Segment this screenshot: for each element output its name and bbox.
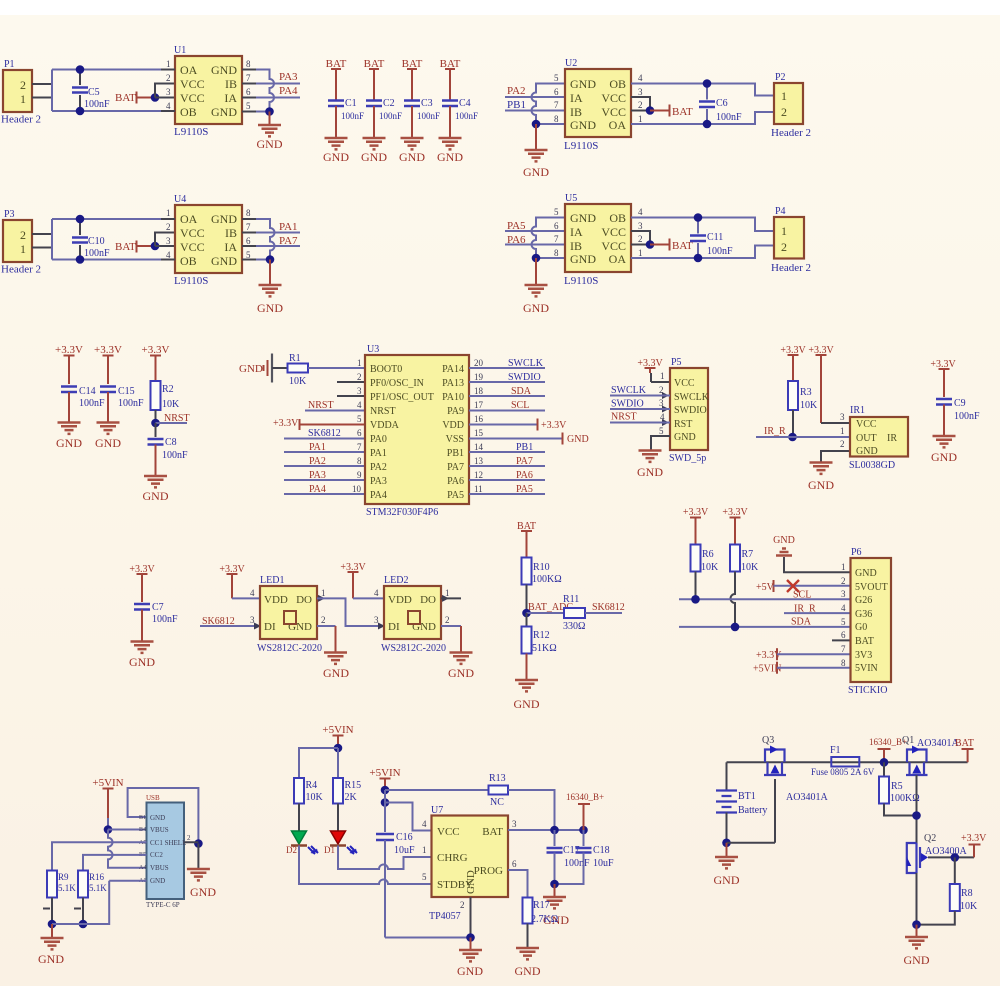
svg-text:C9: C9 xyxy=(954,398,966,409)
capacitor C9 xyxy=(936,398,980,436)
power port BAT (R10) xyxy=(517,521,536,558)
svg-text:16340_B+: 16340_B+ xyxy=(566,792,604,802)
svg-text:STICKIO: STICKIO xyxy=(848,685,887,696)
svg-text:17: 17 xyxy=(474,400,484,410)
svg-text:PROG: PROG xyxy=(474,865,503,877)
svg-text:BAT: BAT xyxy=(672,106,693,118)
no-ERC cross P6 pin2 xyxy=(787,580,799,592)
svg-text:2: 2 xyxy=(20,78,26,92)
arrow LED1 DI xyxy=(254,623,261,630)
svg-text:C5: C5 xyxy=(88,87,100,98)
svg-text:WS2812C-2020: WS2812C-2020 xyxy=(257,643,322,654)
node C6 top xyxy=(703,79,712,88)
ground LED2 xyxy=(450,653,473,664)
svg-text:CC2: CC2 xyxy=(150,851,163,859)
node BAT C17 xyxy=(550,826,559,835)
svg-text:C2: C2 xyxy=(383,98,395,109)
svg-text:12: 12 xyxy=(474,470,483,480)
svg-text:Fuse 0805 2A 6V: Fuse 0805 2A 6V xyxy=(811,767,875,777)
capacitor C7 xyxy=(134,602,178,641)
svg-text:Battery: Battery xyxy=(738,805,767,816)
svg-text:IB: IB xyxy=(570,239,582,253)
svg-text:6: 6 xyxy=(357,428,362,438)
svg-text:G26: G26 xyxy=(855,595,872,606)
svg-text:100nF: 100nF xyxy=(118,398,144,409)
node R16 bottom xyxy=(79,920,88,929)
svg-text:GND: GND xyxy=(143,489,169,503)
resistor R12 xyxy=(522,613,557,680)
svg-text:L9110S: L9110S xyxy=(564,275,598,287)
svg-text:R4: R4 xyxy=(306,780,318,791)
wire shell pin xyxy=(184,842,198,869)
wire U7 BAT net xyxy=(508,829,584,831)
wire SCL net P6 xyxy=(679,598,851,600)
wire PA3 net xyxy=(256,83,300,85)
node VCC tap xyxy=(381,798,390,807)
ground Q2 xyxy=(905,937,928,948)
svg-text:+3.3V: +3.3V xyxy=(55,344,83,356)
svg-text:+3.3V: +3.3V xyxy=(683,507,709,518)
svg-text:4: 4 xyxy=(638,207,643,217)
svg-text:2: 2 xyxy=(638,234,643,244)
svg-text:R15: R15 xyxy=(345,780,362,791)
svg-text:BAT: BAT xyxy=(482,826,503,838)
U4 pin numbers left xyxy=(166,208,171,260)
svg-text:1: 1 xyxy=(841,562,846,572)
node R13 tap xyxy=(381,786,390,795)
svg-text:2: 2 xyxy=(357,372,362,382)
svg-text:8: 8 xyxy=(554,248,559,258)
svg-text:GND: GND xyxy=(570,252,596,266)
ground P5 xyxy=(639,451,662,462)
wire R11 to SK6812 xyxy=(585,612,622,614)
wire SWDIO net xyxy=(469,381,545,383)
connector P6 STICKIO xyxy=(848,547,891,696)
ground C17 C18 xyxy=(543,897,566,908)
wire NRST stub xyxy=(156,422,188,424)
node BAT U1 xyxy=(151,93,160,102)
node R9 bottom xyxy=(48,920,57,929)
node NRST xyxy=(151,419,160,428)
capacitor C18 xyxy=(555,830,615,884)
svg-text:R2: R2 xyxy=(162,384,174,395)
svg-text:L9110S: L9110S xyxy=(174,275,208,287)
svg-text:VCC: VCC xyxy=(437,826,460,838)
receiver IR1 SL0038GD xyxy=(849,405,908,471)
wire Q1 gate down xyxy=(916,775,918,843)
wire Q2 source down xyxy=(916,873,918,925)
U3 pin numbers left xyxy=(352,358,362,494)
node BAT U4 xyxy=(151,242,160,251)
usb connector USB TYPE-C 6P xyxy=(146,794,186,909)
wire PA7 net xyxy=(256,245,300,247)
power port 16340_B+ (U7) xyxy=(566,792,604,830)
svg-text:P6: P6 xyxy=(851,547,862,558)
svg-text:2: 2 xyxy=(781,240,787,254)
wire CC2 to R16 xyxy=(83,855,147,871)
wire battery minus to Q3 gate xyxy=(727,779,776,843)
resistor R9 xyxy=(47,871,76,925)
wire SWDIO to P5 xyxy=(610,408,670,410)
connector P4 xyxy=(771,206,811,274)
svg-text:IR_R: IR_R xyxy=(764,426,786,437)
svg-text:SCL: SCL xyxy=(511,400,529,411)
svg-text:GND: GND xyxy=(637,465,663,479)
no-fit mark R16 xyxy=(74,908,81,910)
svg-text:2.7KΩ: 2.7KΩ xyxy=(531,914,558,925)
capacitor C14 xyxy=(61,386,105,423)
svg-text:+3.3V: +3.3V xyxy=(756,650,782,661)
IR1 pin numbers xyxy=(840,412,845,449)
U4 pin stubs right xyxy=(242,219,256,260)
svg-text:C11: C11 xyxy=(707,232,723,243)
svg-text:6: 6 xyxy=(841,630,846,640)
wire P3 pin1 stub xyxy=(32,247,52,249)
svg-text:CC1 SHELL: CC1 SHELL xyxy=(150,839,186,847)
svg-text:6: 6 xyxy=(554,221,559,231)
node P3 bottom xyxy=(76,255,85,264)
svg-text:U7: U7 xyxy=(431,805,443,816)
svg-text:8: 8 xyxy=(841,658,846,668)
svg-text:R9: R9 xyxy=(58,872,69,882)
wire IR1 GND drop xyxy=(821,451,850,462)
ground C9 xyxy=(933,436,956,447)
node USB VBUS xyxy=(104,825,113,834)
LED1 pin numbers xyxy=(250,588,326,625)
svg-text:SDA: SDA xyxy=(791,617,812,628)
svg-text:3: 3 xyxy=(250,615,255,625)
svg-text:6: 6 xyxy=(246,87,251,97)
wire U2 pin4 OB to P2 pin1 xyxy=(631,84,774,96)
svg-text:5: 5 xyxy=(841,617,846,627)
wire LED2 GND drop xyxy=(441,626,461,652)
svg-text:L9110S: L9110S xyxy=(174,126,208,138)
svg-text:100nF: 100nF xyxy=(716,112,742,123)
svg-text:G36: G36 xyxy=(855,609,872,620)
capacitor C11 xyxy=(690,218,733,259)
svg-text:100nF: 100nF xyxy=(417,111,440,121)
svg-text:100nF: 100nF xyxy=(79,398,105,409)
svg-text:IR1: IR1 xyxy=(850,405,865,416)
svg-text:OA: OA xyxy=(180,63,198,77)
svg-text:GND: GND xyxy=(457,964,483,978)
svg-text:R3: R3 xyxy=(800,387,812,398)
ground C4 xyxy=(439,138,462,149)
svg-text:100nF: 100nF xyxy=(707,246,733,257)
svg-text:8: 8 xyxy=(554,114,559,124)
svg-text:7: 7 xyxy=(246,222,251,232)
svg-text:SWDIO: SWDIO xyxy=(611,399,644,410)
svg-text:C16: C16 xyxy=(396,832,413,843)
svg-text:GND: GND xyxy=(190,885,216,899)
node 16340 tap xyxy=(880,758,889,767)
svg-text:R6: R6 xyxy=(702,549,714,560)
power port +3.3V (U3 VDDA) xyxy=(273,418,365,430)
svg-text:G0: G0 xyxy=(855,622,867,633)
svg-text:1: 1 xyxy=(660,371,665,381)
svg-text:GND: GND xyxy=(361,150,387,164)
svg-text:PA6: PA6 xyxy=(516,470,533,481)
svg-text:VCC: VCC xyxy=(180,91,205,105)
U1 pin stubs left xyxy=(161,70,175,112)
svg-text:GND: GND xyxy=(288,621,312,633)
svg-text:PA4: PA4 xyxy=(279,85,298,97)
svg-text:NRST: NRST xyxy=(611,412,637,423)
wire U3 pin2 nc stub xyxy=(337,381,365,383)
led D2 green xyxy=(286,831,318,855)
svg-text:A4: A4 xyxy=(139,865,146,871)
svg-text:2: 2 xyxy=(166,222,171,232)
wire SK6812 to LED1 DI xyxy=(200,625,260,627)
svg-text:VCC: VCC xyxy=(180,240,205,254)
node U5 GND xyxy=(532,254,541,263)
capacitor C17 xyxy=(547,830,591,884)
svg-text:7: 7 xyxy=(246,73,251,83)
wire NRST to U3 pin4 xyxy=(305,410,365,412)
svg-text:VCC: VCC xyxy=(601,225,626,239)
svg-text:AO3401A: AO3401A xyxy=(917,738,959,749)
wire LED2 DO stub xyxy=(441,597,461,599)
svg-text:GND: GND xyxy=(931,450,957,464)
svg-text:GND: GND xyxy=(567,434,589,445)
power port +3.3V (C9) xyxy=(930,359,956,397)
wire VBUS down to USB pin5 xyxy=(108,830,147,868)
wire BAT to U4 pins 2,3 xyxy=(155,233,175,247)
power port BAT (rail) xyxy=(955,738,974,762)
svg-text:DI: DI xyxy=(264,621,276,633)
connector P5 SWD_5p xyxy=(669,357,710,464)
wire U2 GND drop xyxy=(535,124,537,150)
wire U7 GND pin2 xyxy=(470,897,472,938)
svg-text:PA6: PA6 xyxy=(447,476,464,487)
wire VBUS to USB pin2 xyxy=(108,829,147,831)
svg-text:OUT: OUT xyxy=(856,433,877,444)
svg-text:1: 1 xyxy=(20,92,26,106)
wire R9 GND drop xyxy=(51,924,53,938)
svg-text:1: 1 xyxy=(445,588,450,598)
svg-text:P1: P1 xyxy=(4,59,15,70)
svg-text:2K: 2K xyxy=(345,792,358,803)
U2 pin numbers left xyxy=(554,73,559,124)
svg-text:100KΩ: 100KΩ xyxy=(890,793,920,804)
battery BT1 xyxy=(716,762,767,843)
svg-text:VDD: VDD xyxy=(388,594,412,606)
wire U3 pin3 nc stub xyxy=(337,395,365,397)
svg-text:100nF: 100nF xyxy=(162,450,188,461)
power port +3.3V (P5) xyxy=(637,358,670,382)
svg-text:RST: RST xyxy=(674,419,692,430)
svg-text:NC: NC xyxy=(490,797,504,808)
wire SCL net xyxy=(469,410,545,412)
U4 pin numbers right xyxy=(246,208,251,260)
svg-text:10K: 10K xyxy=(800,400,818,411)
ground C14 xyxy=(58,423,81,434)
svg-text:VCC: VCC xyxy=(180,226,205,240)
svg-text:VSS: VSS xyxy=(446,434,464,445)
svg-text:OA: OA xyxy=(609,252,627,266)
svg-text:F1: F1 xyxy=(830,745,841,756)
svg-text:+3.3V: +3.3V xyxy=(541,420,567,431)
wire Q2 GND drop xyxy=(916,925,918,937)
svg-text:5: 5 xyxy=(659,426,664,436)
svg-text:4: 4 xyxy=(357,400,362,410)
svg-text:10uF: 10uF xyxy=(593,858,614,869)
ground C2 xyxy=(363,138,386,149)
svg-text:1: 1 xyxy=(781,224,787,238)
svg-text:SWCLK: SWCLK xyxy=(508,358,544,369)
svg-text:GND: GND xyxy=(523,165,549,179)
svg-text:3: 3 xyxy=(357,386,362,396)
power port +3.3V (R3) xyxy=(780,345,806,381)
svg-text:2: 2 xyxy=(187,834,191,842)
power port BAT (U1) xyxy=(115,92,155,105)
node SDA R7 xyxy=(731,623,740,632)
svg-text:C6: C6 xyxy=(716,98,728,109)
ground C3 xyxy=(401,138,424,149)
node U2 GND xyxy=(532,120,541,129)
node U1 GND xyxy=(265,107,274,116)
op chip U4 L9110S xyxy=(174,194,242,287)
node battery minus xyxy=(722,839,731,848)
U7 pin numbers xyxy=(422,819,517,910)
svg-text:TP4057: TP4057 xyxy=(429,911,461,922)
resistor R6 xyxy=(691,545,720,600)
svg-text:2: 2 xyxy=(638,100,643,110)
svg-text:GND: GND xyxy=(904,953,930,967)
svg-text:SK6812: SK6812 xyxy=(308,428,341,439)
svg-text:IB: IB xyxy=(225,226,237,240)
svg-text:AO3401A: AO3401A xyxy=(786,792,828,803)
wire SK6812 to U3 pin6 xyxy=(284,438,365,440)
svg-text:PA13: PA13 xyxy=(442,378,464,389)
svg-text:10: 10 xyxy=(352,484,362,494)
wire P3 pin2 stub xyxy=(32,233,52,235)
svg-text:16: 16 xyxy=(474,414,484,424)
svg-text:3: 3 xyxy=(840,412,845,422)
node BAT_ADC xyxy=(522,609,531,618)
capacitor C2 with BAT and ground xyxy=(364,58,402,138)
node BAT C18 xyxy=(579,826,588,835)
svg-text:Header 2: Header 2 xyxy=(771,262,811,274)
svg-text:5: 5 xyxy=(554,73,559,83)
svg-text:+3.3V: +3.3V xyxy=(142,344,170,356)
svg-text:SL0038GD: SL0038GD xyxy=(849,460,895,471)
wire U5 pin4 OB to P4 pin1 xyxy=(631,218,774,232)
svg-text:LED1: LED1 xyxy=(260,575,284,586)
svg-text:U4: U4 xyxy=(174,194,186,205)
LED2 pin numbers xyxy=(374,588,450,625)
svg-text:1: 1 xyxy=(357,358,362,368)
svg-text:STM32F030F4P6: STM32F030F4P6 xyxy=(366,507,438,518)
resistor R13 xyxy=(489,773,509,808)
svg-text:3: 3 xyxy=(512,819,517,829)
svg-text:USB: USB xyxy=(146,794,160,802)
svg-text:CHRG: CHRG xyxy=(437,852,468,864)
led D1 red xyxy=(324,831,357,855)
power port +3.3V (R7) xyxy=(722,507,748,545)
svg-text:100nF: 100nF xyxy=(152,614,178,625)
power port BAT (U4) xyxy=(115,241,155,254)
svg-text:VBUS: VBUS xyxy=(150,826,169,834)
svg-text:SWD_5p: SWD_5p xyxy=(669,453,706,464)
svg-text:BAT: BAT xyxy=(955,738,974,749)
svg-text:7: 7 xyxy=(554,100,559,110)
svg-text:VDD: VDD xyxy=(442,420,464,431)
svg-text:3: 3 xyxy=(638,221,643,231)
svg-text:10K: 10K xyxy=(306,792,324,803)
svg-text:10K: 10K xyxy=(701,562,719,573)
svg-text:3V3: 3V3 xyxy=(855,650,872,661)
svg-text:VDD: VDD xyxy=(264,594,288,606)
svg-text:330Ω: 330Ω xyxy=(563,621,585,632)
power port 16340_B+ (rail) xyxy=(869,737,907,762)
svg-text:4: 4 xyxy=(166,101,171,111)
power port +3.3V (Q2) xyxy=(961,833,987,857)
wire IR_R net xyxy=(756,436,850,438)
node USB shell xyxy=(194,839,203,848)
svg-text:PF0/OSC_IN: PF0/OSC_IN xyxy=(370,378,424,389)
wire P5 GND drop xyxy=(651,436,670,450)
svg-text:100nF: 100nF xyxy=(455,111,478,121)
ground IR1 xyxy=(810,463,833,474)
wire PB1 net xyxy=(505,110,565,112)
power port +5VIN (U7) xyxy=(369,767,400,790)
wire U1 GND drop xyxy=(269,112,271,126)
svg-text:8: 8 xyxy=(246,208,251,218)
svg-text:OB: OB xyxy=(180,105,197,119)
resistor R11 xyxy=(563,594,585,632)
svg-text:GND: GND xyxy=(856,446,878,457)
arrow LED1 DO xyxy=(318,595,325,602)
svg-text:OA: OA xyxy=(609,118,627,132)
svg-text:PA5: PA5 xyxy=(516,484,533,495)
svg-text:TYPE-C 6P: TYPE-C 6P xyxy=(146,901,180,909)
power port +5VIN (LEDs) xyxy=(322,724,353,748)
svg-text:SWDIO: SWDIO xyxy=(508,372,541,383)
svg-text:WS2812C-2020: WS2812C-2020 xyxy=(381,643,446,654)
svg-text:B1: B1 xyxy=(139,815,146,821)
ground C15 xyxy=(97,423,120,434)
svg-text:Q3: Q3 xyxy=(762,735,774,746)
wire D1 to CHRG xyxy=(338,846,432,870)
wire SWCLK to P5 xyxy=(610,395,670,397)
ground R17 xyxy=(516,948,539,959)
power port +5V (P6) xyxy=(756,580,851,593)
svg-text:C15: C15 xyxy=(118,386,135,397)
svg-text:2: 2 xyxy=(840,439,845,449)
power port +3.3V (IR1) xyxy=(808,345,850,423)
svg-text:BT1: BT1 xyxy=(738,791,756,802)
svg-text:GND: GND xyxy=(399,150,425,164)
charger U7 TP4057 xyxy=(429,805,508,922)
wire C17 GND drop xyxy=(554,884,556,897)
power port +5VIN (USB) xyxy=(92,777,123,830)
svg-text:GND: GND xyxy=(129,655,155,669)
wire PA2 net xyxy=(505,96,565,98)
arrow LED2 DI xyxy=(378,623,385,630)
U5 pin numbers left xyxy=(554,207,559,258)
led LED1 WS2812C-2020 xyxy=(257,575,322,654)
ground port P6 pin1 xyxy=(773,535,850,572)
svg-text:GND: GND xyxy=(570,77,596,91)
svg-text:GND: GND xyxy=(323,666,349,680)
svg-text:OB: OB xyxy=(609,77,626,91)
svg-text:R17: R17 xyxy=(533,900,550,911)
svg-text:1: 1 xyxy=(422,845,427,855)
svg-text:100nF: 100nF xyxy=(84,99,110,110)
power port BAT (U5) xyxy=(650,239,693,253)
svg-text:LED2: LED2 xyxy=(384,575,408,586)
